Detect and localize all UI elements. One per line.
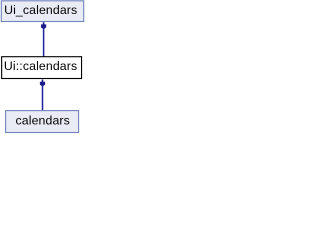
node Ui_calendars (base class box) [1, 1, 83, 22]
svg-text:Ui::calendars: Ui::calendars [4, 59, 77, 73]
node calendars (derived class box) [6, 111, 79, 133]
node Ui::calendars (current class box) [2, 57, 82, 79]
svg-text:calendars: calendars [15, 114, 69, 128]
svg-text:Ui_calendars: Ui_calendars [4, 3, 77, 17]
inheritance arrow: calendars to Ui::calendars [40, 80, 45, 111]
inheritance arrow: Ui::calendars to Ui_calendars [41, 22, 46, 56]
inheritance diagram for class calendars [0, 0, 86, 136]
